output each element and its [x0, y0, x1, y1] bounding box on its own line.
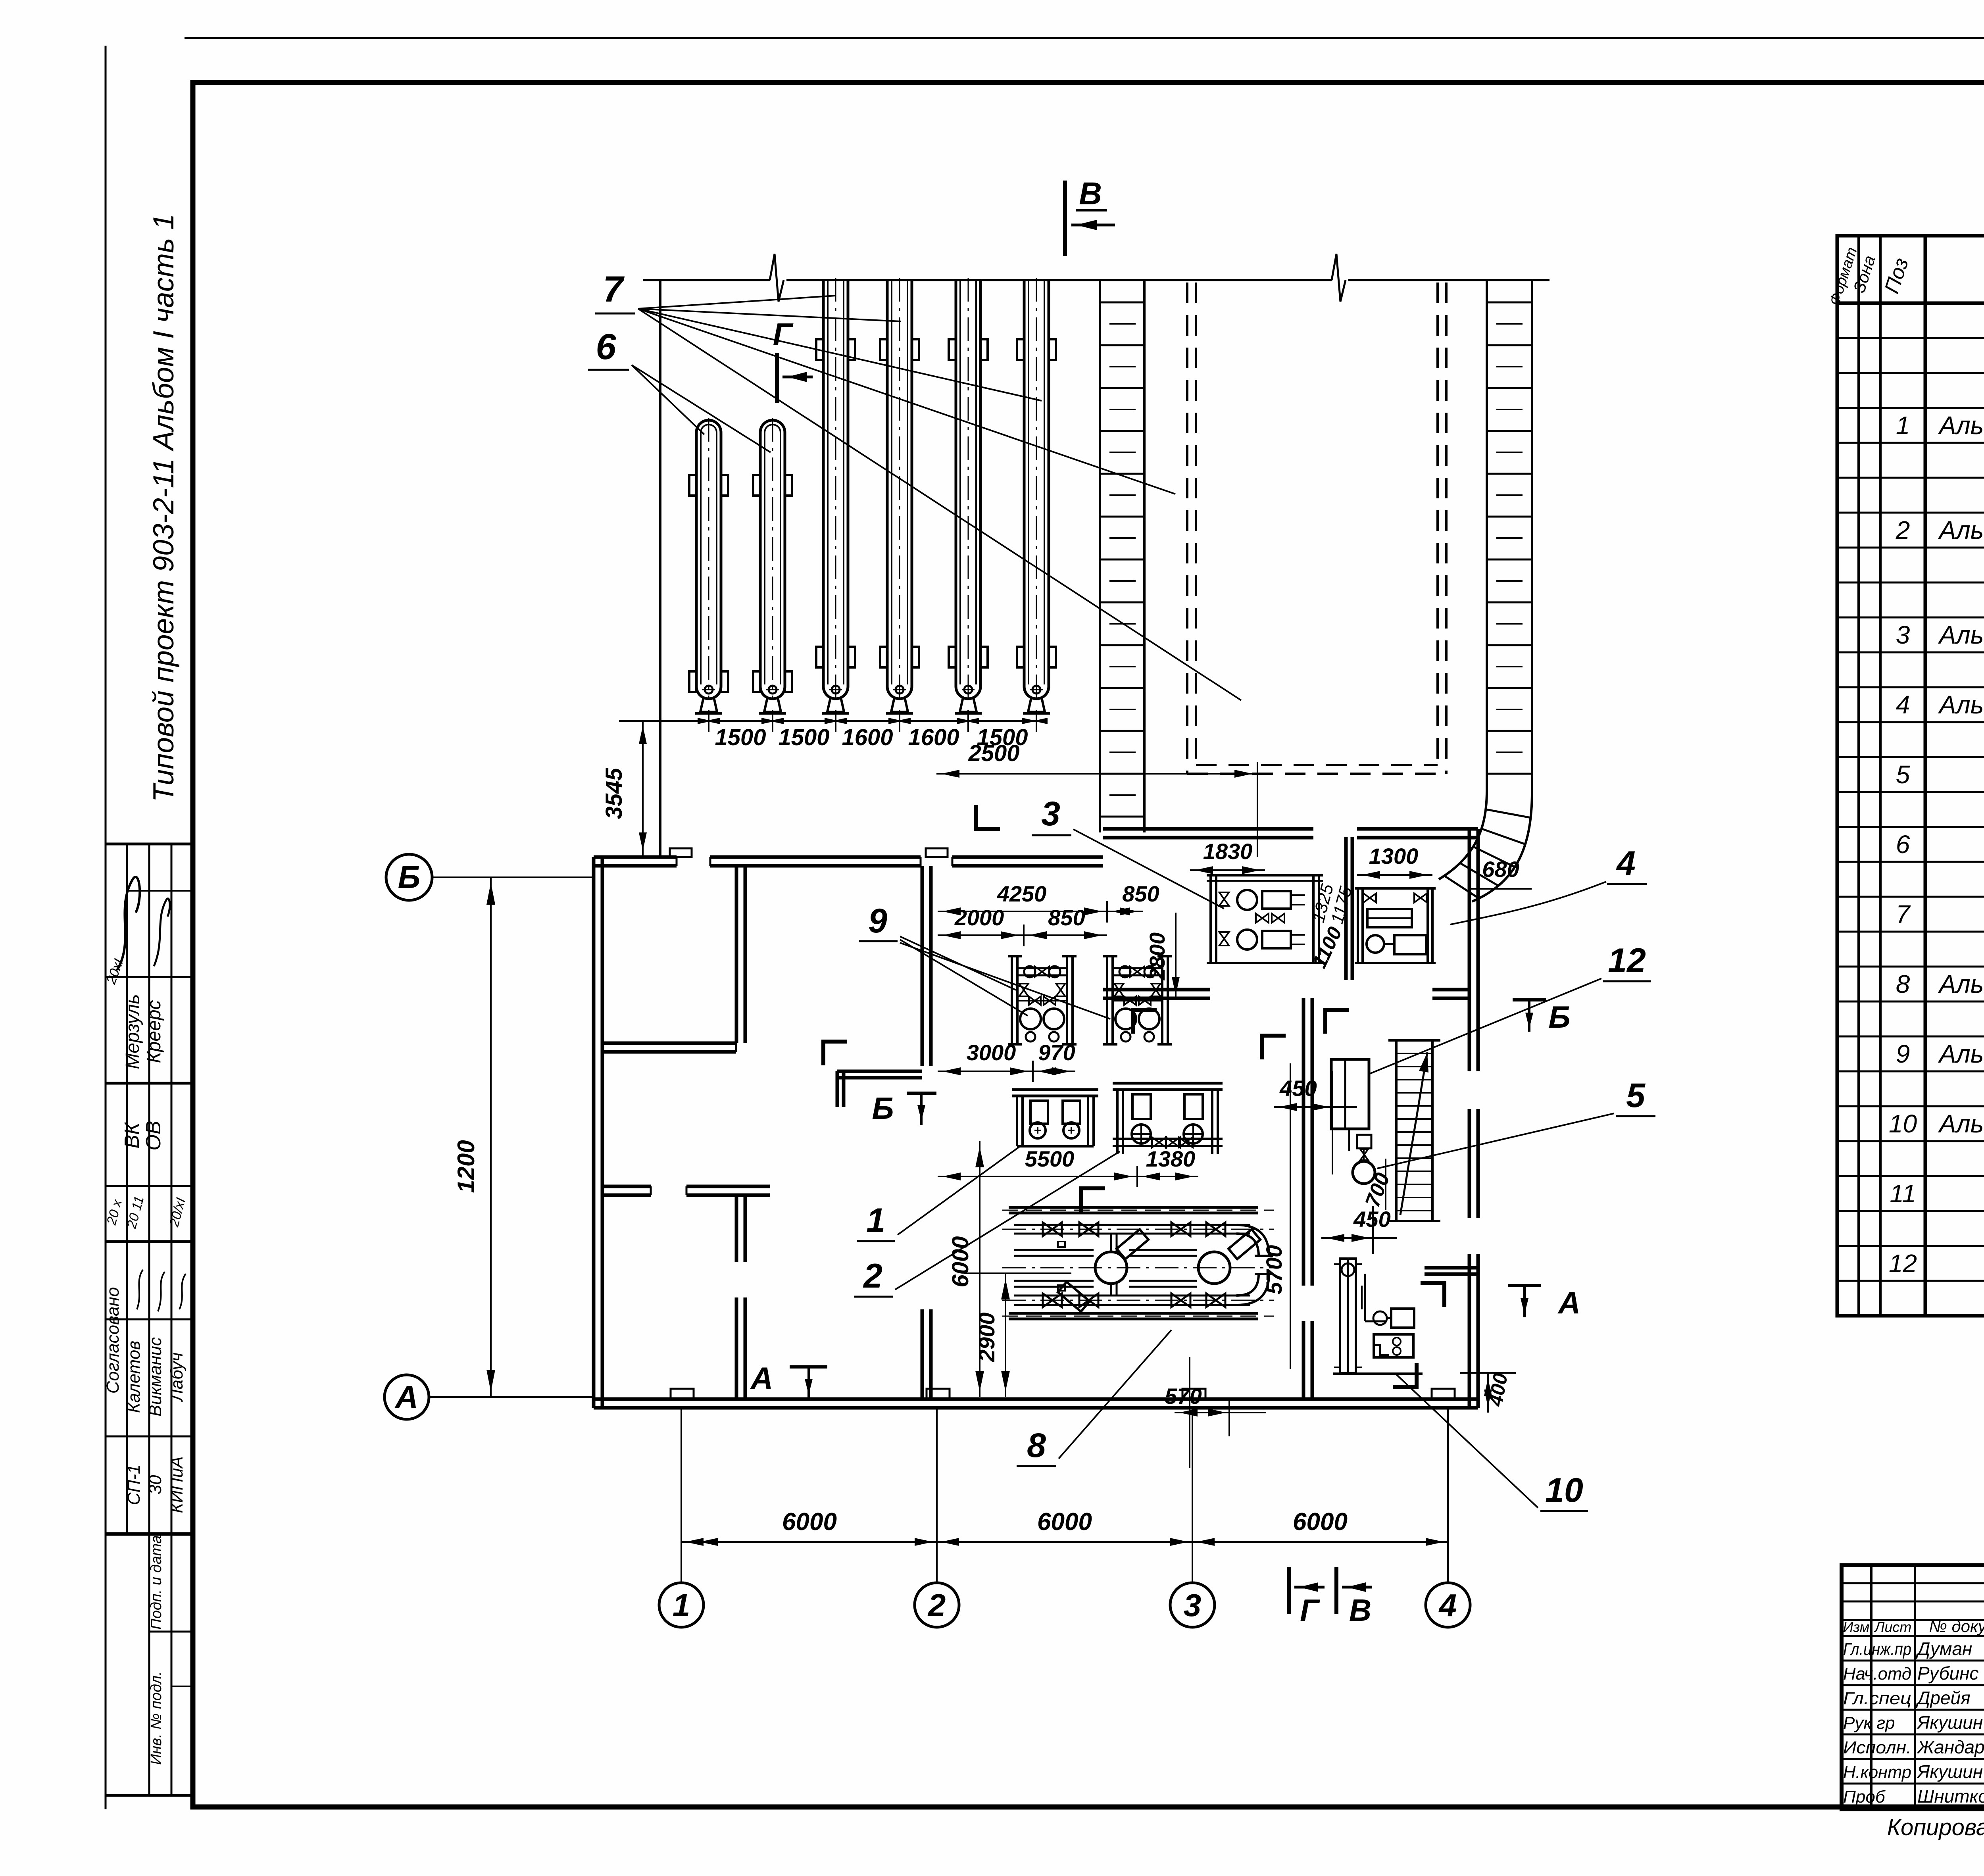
svg-text:ВК: ВК: [121, 1121, 144, 1149]
svg-text:4250: 4250: [997, 881, 1047, 906]
svg-text:3: 3: [1041, 795, 1060, 833]
section mark ТБ right: [1513, 998, 1546, 1001]
title block left grid: [1870, 1565, 1872, 1809]
upper area top wall: [643, 279, 770, 281]
additive unit block 10: [1333, 1259, 1423, 1374]
svg-text:1380: 1380: [1146, 1146, 1196, 1171]
svg-text:КИПиА: КИПиА: [167, 1456, 186, 1513]
svg-text:Викманис: Викманис: [146, 1337, 165, 1417]
svg-text:Лист: Лист: [1874, 1619, 1912, 1635]
svg-text:Исполн.: Исполн.: [1843, 1738, 1911, 1757]
wall left exterior: [592, 857, 596, 1408]
svg-text:6: 6: [596, 327, 616, 367]
dimension 2900 vertical: [1005, 1273, 1006, 1397]
heater 7c ПМ-40-30: [949, 278, 988, 713]
svg-text:6: 6: [1896, 830, 1910, 859]
dimension 4250 and 850: [938, 911, 1143, 912]
dimension 1300: [1357, 874, 1432, 876]
pump block 4 Б-МНп: [1355, 888, 1436, 963]
svg-text:2900: 2900: [974, 1313, 999, 1363]
svg-text:12: 12: [1889, 1249, 1917, 1278]
corner mark e: [1421, 1283, 1444, 1307]
svg-text:Думан: Думан: [1915, 1638, 1972, 1659]
svg-text:1300: 1300: [1369, 844, 1419, 869]
heater 7a ПМ-40-30: [816, 278, 855, 713]
svg-text:Согласовано: Согласовано: [103, 1287, 123, 1394]
svg-text:Проб: Проб: [1843, 1787, 1886, 1807]
left gallery hatched wall: [1100, 280, 1144, 832]
left stamp signatures lower: [137, 1270, 143, 1309]
dimension 1200 vertical: [490, 877, 492, 1397]
bottom dimension 6000 row: [681, 1541, 1448, 1543]
svg-text:Рук гр: Рук гр: [1843, 1713, 1895, 1733]
svg-text:Шнитко: Шнитко: [1917, 1786, 1984, 1807]
svg-text:Гл.инж.пр: Гл.инж.пр: [1843, 1640, 1911, 1659]
svg-text:Жандаров: Жандаров: [1917, 1737, 1984, 1757]
pump block 2 Б-МН-2х22: [1113, 1083, 1223, 1154]
svg-text:2800: 2800: [1146, 932, 1169, 980]
svg-text:Калетов: Калетов: [124, 1341, 144, 1413]
svg-text:2: 2: [863, 1257, 882, 1295]
interior wall vertical lower: [735, 1195, 738, 1262]
title block outer: [1842, 1565, 1984, 1809]
svg-text:1200: 1200: [453, 1140, 479, 1193]
svg-text:Б: Б: [1548, 1000, 1570, 1034]
heater 7d ПМ-40-30: [1017, 278, 1056, 713]
svg-text:6000: 6000: [1037, 1508, 1092, 1536]
svg-text:12: 12: [1608, 942, 1646, 980]
spec table header row: [1837, 302, 1984, 305]
svg-text:9: 9: [868, 902, 887, 940]
svg-text:В: В: [1349, 1593, 1371, 1628]
svg-text:Дрейя: Дрейя: [1915, 1688, 1971, 1708]
corner mark c: [1325, 1010, 1349, 1034]
svg-text:6000: 6000: [782, 1508, 837, 1536]
interior wall middle vertical: [921, 866, 924, 1066]
svg-text:Б: Б: [398, 859, 421, 895]
interior wall vertical upper: [735, 866, 738, 1043]
svg-text:Копировал: Копировал: [1887, 1814, 1984, 1840]
svg-text:Альб. I ч.4: Альб. I ч.4: [1938, 1109, 1984, 1138]
corner mark g: [976, 805, 1000, 829]
svg-text:850: 850: [1122, 881, 1159, 906]
svg-text:3: 3: [1184, 1588, 1202, 1623]
dimension 5700 vertical: [1290, 1063, 1291, 1369]
svg-text:570: 570: [1165, 1384, 1202, 1409]
svg-text:СП-1: СП-1: [124, 1465, 144, 1505]
dimension 2000 and 850: [938, 934, 1107, 936]
svg-text:5: 5: [1626, 1076, 1646, 1115]
svg-text:6000: 6000: [1293, 1508, 1348, 1536]
dimension 450 lower: [1321, 1237, 1397, 1239]
tank pit dashed outline outer: [1186, 283, 1188, 774]
svg-text:Подп. и дата: Подп. и дата: [148, 1535, 165, 1630]
dimension 2800 vertical: [1175, 913, 1177, 1000]
left stamp signatures upper: [117, 877, 140, 970]
corner mark f: [1393, 1363, 1417, 1387]
svg-text:1: 1: [1896, 411, 1910, 440]
svg-text:Нач.отд: Нач.отд: [1843, 1664, 1911, 1684]
section mark В top: [1063, 181, 1067, 256]
corner mark h: [1262, 1036, 1286, 1059]
pilasters on А wall: [671, 1389, 694, 1399]
svg-text:3545: 3545: [601, 768, 627, 819]
svg-text:1830: 1830: [1203, 839, 1253, 864]
svg-text:Альб I ч.4: Альб I ч.4: [1938, 411, 1984, 440]
datchik room shelf wall: [1425, 1266, 1478, 1270]
svg-text:3: 3: [1896, 621, 1910, 649]
corner mark d: [1081, 1188, 1105, 1212]
tank pit dashed outline inner: [1195, 283, 1197, 765]
svg-text:Типовой проект 903-2-11 Аль: Типовой проект 903-2-11 Альбом I часть 1: [148, 214, 180, 802]
svg-text:Альб. I ч.4: Альб. I ч.4: [1938, 516, 1984, 544]
svg-text:7: 7: [1896, 900, 1911, 928]
dimension 570: [1175, 1412, 1266, 1413]
stairs: [1388, 1040, 1440, 1221]
svg-text:5500: 5500: [1025, 1146, 1075, 1171]
left stamp lower box: [149, 1631, 193, 1633]
svg-text:Б: Б: [872, 1091, 894, 1126]
pilaster Б grid2: [926, 848, 948, 857]
heater 6a ПМ-40-15: [689, 418, 728, 713]
pump block 1 Б-МН-2х6,6: [1012, 1090, 1098, 1146]
svg-text:970: 970: [1038, 1040, 1075, 1065]
heater spacing dimension line: [684, 720, 1036, 722]
pump block 9b Б-МФт filters: [1103, 956, 1172, 1044]
section marks Г В bottom: [1287, 1567, 1291, 1614]
svg-text:Альб. I ч.4: Альб. I ч.4: [1938, 1040, 1984, 1068]
dimension 3000 970: [938, 1071, 1075, 1072]
svg-text:А: А: [1557, 1285, 1580, 1320]
svg-text:Лабуч: Лабуч: [167, 1352, 186, 1402]
top-right room inner partition: [1344, 837, 1348, 980]
sheet scan edge left: [105, 46, 107, 1809]
svg-text:10: 10: [1545, 1471, 1583, 1509]
right room left wall: [1302, 998, 1305, 1286]
svg-text:680: 680: [1482, 857, 1519, 882]
svg-text:Гл.спец: Гл.спец: [1843, 1689, 1911, 1708]
break symbol left: [770, 254, 784, 302]
svg-text:Альб. I ч.4: Альб. I ч.4: [1938, 690, 1984, 719]
svg-text:1500: 1500: [778, 725, 829, 750]
wall row Б: [594, 855, 677, 859]
svg-text:450: 450: [1353, 1207, 1390, 1232]
svg-text:3000: 3000: [967, 1040, 1016, 1065]
corner mark b: [1133, 1010, 1157, 1034]
svg-text:1500: 1500: [715, 725, 766, 750]
svg-text:8: 8: [1027, 1426, 1046, 1465]
svg-text:№ докум: № докум: [1929, 1617, 1984, 1636]
dimension 5500 and 1380: [938, 1176, 1198, 1177]
svg-text:А: А: [750, 1361, 773, 1395]
svg-text:10: 10: [1889, 1109, 1917, 1138]
svg-text:2: 2: [927, 1588, 946, 1623]
pump block 3 Б-МНр recirculation: [1207, 875, 1323, 963]
dimension 400 vertical: [1487, 1373, 1489, 1413]
svg-text:9: 9: [1896, 1040, 1910, 1068]
sheet scan edge top: [185, 37, 1984, 39]
svg-text:850: 850: [1048, 905, 1085, 930]
svg-text:5: 5: [1896, 760, 1910, 789]
svg-text:30: 30: [146, 1475, 165, 1494]
grid circle Б: [386, 854, 432, 900]
dimension 3545: [642, 721, 644, 855]
pump block 9a Б-МФт filters: [1008, 956, 1077, 1044]
interior wall H2: [602, 1185, 651, 1188]
svg-text:Г: Г: [1300, 1593, 1320, 1628]
section mark ТА right: [1508, 1284, 1541, 1287]
filter block 8 Б-МФг: [1002, 1207, 1274, 1319]
svg-text:Изм: Изм: [1843, 1619, 1870, 1635]
svg-text:Якушин: Якушин: [1916, 1712, 1983, 1733]
top-right room bottom wall segments: [1103, 988, 1210, 992]
svg-text:1600: 1600: [908, 725, 959, 750]
dimension 6000 vertical mid: [979, 1141, 980, 1397]
interior partition L: [837, 1070, 922, 1073]
right gallery hatched wall with curve: [1439, 280, 1532, 901]
svg-text:4: 4: [1896, 690, 1910, 719]
heater 7b ПМ-40-30: [880, 278, 919, 713]
svg-text:ОВ: ОВ: [142, 1121, 165, 1150]
svg-text:В: В: [1079, 176, 1102, 211]
spec table outer: [1837, 236, 1984, 1316]
svg-text:2500: 2500: [968, 740, 1019, 766]
break symbol right: [1332, 254, 1346, 302]
dimension 1830: [1190, 869, 1265, 871]
svg-text:Мерзуль: Мерзуль: [122, 994, 143, 1069]
svg-text:Рубинс: Рубинс: [1917, 1663, 1978, 1684]
spec table column lines: [1857, 236, 1860, 1316]
wall row А: [594, 1397, 1478, 1401]
svg-text:Н.контр: Н.контр: [1843, 1763, 1911, 1782]
svg-text:5700: 5700: [1261, 1245, 1286, 1295]
corner mark a: [823, 1042, 847, 1065]
top-right room top wall: [1103, 827, 1313, 831]
svg-text:Якушин: Якушин: [1916, 1761, 1983, 1782]
dimension 2500: [936, 773, 1257, 775]
svg-text:1: 1: [673, 1588, 690, 1623]
heater 6b ПМ-40-15: [753, 418, 792, 713]
svg-text:Г: Г: [773, 317, 794, 352]
interior wall H1: [602, 1042, 736, 1045]
left stamp table grid: [105, 844, 107, 1795]
svg-text:450: 450: [1279, 1076, 1317, 1101]
svg-text:Креерс: Креерс: [144, 1000, 165, 1063]
svg-text:Альб. I ч.4: Альб. I ч.4: [1938, 970, 1984, 998]
svg-text:11: 11: [1890, 1179, 1916, 1208]
svg-text:8: 8: [1896, 970, 1910, 998]
svg-text:7: 7: [603, 269, 625, 309]
drain pump 5: [1357, 1135, 1371, 1148]
svg-text:Альб. I ч.4: Альб. I ч.4: [1938, 621, 1984, 649]
upper area left wall line: [659, 280, 661, 857]
svg-text:1600: 1600: [842, 725, 893, 750]
dimension 700 rotated: [1385, 1159, 1386, 1210]
svg-text:А: А: [394, 1379, 418, 1415]
pilaster Б grid1: [670, 848, 692, 857]
svg-text:2000: 2000: [954, 905, 1004, 930]
svg-text:4: 4: [1616, 844, 1636, 882]
spec table row lines: [1837, 337, 1984, 339]
svg-text:1: 1: [866, 1201, 885, 1240]
grid column circles: [659, 1583, 704, 1627]
level sensors box 12: [1331, 1059, 1369, 1129]
dimension 450 upper: [1274, 1106, 1357, 1108]
top-right room right wall: [1468, 829, 1471, 1071]
svg-text:Инв. № подл.: Инв. № подл.: [148, 1671, 165, 1765]
svg-text:2: 2: [1896, 516, 1910, 544]
svg-text:4: 4: [1438, 1588, 1457, 1623]
grid circle А: [384, 1375, 429, 1419]
